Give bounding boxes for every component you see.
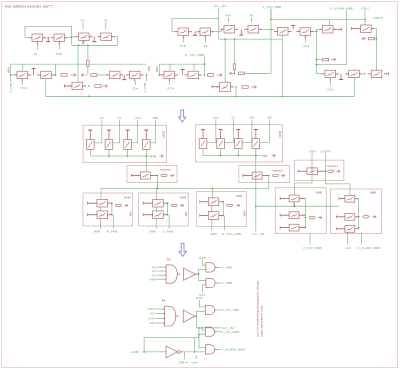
svg-text:AB: AB — [203, 44, 207, 48]
transistor AGB (B2) — [54, 34, 65, 42]
svg-text:MB: MB — [130, 212, 133, 216]
junction x317 y64 — [316, 64, 318, 66]
wire CRB7 label down — [311, 153, 313, 183]
resistor B7 out — [95, 85, 101, 88]
wire UC# A up — [203, 285, 206, 294]
svg-text:NOR: NOR — [161, 131, 165, 138]
svg-text:O_TIO_NBB: O_TIO_NBB — [221, 308, 239, 312]
svg-text:logic equivalent only,: logic equivalent only, — [259, 305, 263, 337]
svg-text:A2: A2 — [150, 312, 154, 316]
group box L2 — [139, 193, 189, 226]
pin end NBB3 t2 in — [279, 214, 281, 217]
group box L1 — [83, 193, 133, 226]
junction inv2 out — [268, 175, 270, 177]
wire AB to t4 NOR2 — [260, 119, 270, 142]
junction Bmid out — [235, 86, 237, 88]
wire t2 bottom NOR2 — [220, 149, 222, 156]
nor-gate G2a — [205, 305, 214, 314]
svg-text:U_PMB: U_PMB — [163, 230, 174, 234]
transistor B325 — [325, 70, 336, 78]
svg-text:R1: R1 — [167, 258, 171, 262]
wire L2 out join — [167, 203, 169, 215]
ground A1a-A2a — [240, 29, 242, 35]
junction CRB7# net — [376, 38, 378, 40]
wire M lab1 — [211, 219, 213, 230]
wire B9 label stub — [135, 82, 137, 85]
oval inv1 — [161, 174, 167, 177]
wire NOR1 to inv1 — [145, 156, 147, 172]
junction L1 out a — [111, 202, 113, 204]
junction NBB3 out a — [305, 217, 307, 219]
svg-text:UC#: UC# — [132, 87, 138, 91]
wire top-left rail — [25, 27, 72, 46]
wire B9 out — [145, 75, 147, 82]
pin end NBB4 t3 in — [335, 227, 337, 230]
svg-text:U_PBB: U_PBB — [222, 281, 232, 285]
junction M out b — [222, 215, 224, 217]
junction NOR2 rail b — [237, 155, 239, 157]
oval M — [227, 204, 233, 207]
transistor L2 t1 — [153, 199, 164, 207]
wire CRB7# label down — [325, 153, 350, 195]
svg-text:Inverter: Inverter — [272, 168, 283, 172]
wire L1 lab1 — [100, 219, 102, 229]
junction NBB4 out b — [358, 226, 360, 228]
wire M out join — [222, 202, 224, 216]
pin end Bmid input — [211, 85, 213, 88]
wire AB B4 in — [154, 322, 164, 324]
arrow R_PMB out — [71, 74, 75, 76]
junction A1a net — [234, 38, 236, 40]
ground B325-B348 — [340, 74, 342, 80]
wire B4 feedback loop — [72, 37, 118, 46]
svg-text:CRB7: CRB7 — [131, 350, 139, 354]
transistor Bmid — [220, 82, 231, 91]
wire bufB to G2a — [196, 311, 205, 316]
svg-text:POH: POH — [21, 86, 28, 90]
arrow marker 1 — [179, 110, 186, 122]
pin end inv1 in — [130, 174, 132, 177]
junction NBB3 out b — [305, 227, 307, 229]
wire CRB7 out — [372, 29, 376, 71]
wire B6 bottom long — [46, 79, 355, 96]
pin end L2 t2 in — [142, 213, 144, 216]
junction NBB4 out a — [358, 216, 360, 218]
pin end L1 t2 in — [87, 213, 89, 216]
resistor CRB7 net — [369, 37, 375, 40]
wire NOR2 rail — [203, 155, 261, 157]
oval NBB4 — [363, 216, 369, 219]
transistor L1 t2 — [97, 211, 108, 219]
wire NBB3 label stub — [309, 234, 311, 245]
wire bufA to G1a — [199, 269, 206, 274]
junction x317 top — [316, 31, 318, 33]
wire inv2 out down — [268, 176, 270, 189]
wire B10 gate drop — [169, 64, 171, 70]
wire NBB4 label stub b — [360, 232, 362, 244]
wire B2 gate label stub — [58, 45, 60, 50]
transistor B6 — [41, 71, 52, 79]
pin end inv3 in — [297, 170, 299, 173]
wire R_TOO label down — [204, 57, 206, 76]
ground t2 NOR1 — [108, 130, 110, 139]
wire res to arrow row mid — [234, 70, 236, 73]
wire resistor to arrow row — [87, 66, 89, 75]
wire y337 to G2b — [195, 334, 206, 337]
junction B1-B2 — [47, 37, 49, 39]
wire NOR1 rail — [90, 155, 150, 157]
wire L1 out join — [111, 203, 113, 215]
ground t4 NOR2 — [255, 130, 257, 139]
wire inv3 passthru — [295, 183, 312, 195]
ground between B3 B4 — [93, 37, 95, 42]
wire t1 bottom NOR1 — [89, 149, 91, 156]
svg-text:AB#: AB# — [148, 307, 154, 311]
wire rail right — [271, 19, 365, 21]
wire A3# to t3 NOR2 — [242, 119, 252, 142]
pin end NBB3 t1 in — [279, 197, 281, 200]
junction B3 bottom — [78, 45, 80, 47]
junction GO vert rail — [255, 155, 257, 157]
wire NBB3 t1 out down — [304, 199, 306, 228]
oval inv3 — [328, 170, 334, 173]
svg-text:Inverter: Inverter — [160, 168, 171, 172]
transistor NBB3 t1 — [289, 195, 299, 202]
transistor UC# (B9) — [130, 71, 141, 79]
svg-text:NBB: NBB — [316, 190, 322, 194]
wire B325 label stub — [329, 78, 331, 86]
junction B6 out — [55, 74, 57, 76]
wire B277 bottom long — [281, 35, 283, 97]
oval L1 — [115, 204, 121, 207]
arrow NOR1 out — [159, 155, 162, 157]
junction NOR1 rail c — [145, 155, 147, 157]
wire to B8 — [97, 74, 106, 76]
wire rail row2 right — [159, 64, 204, 75]
svg-text:MB#: MB# — [94, 230, 101, 234]
junction left input — [10, 74, 12, 76]
wire B3 bottom to loop — [82, 41, 84, 46]
svg-text:AB#: AB# — [149, 277, 155, 281]
wire B11 gate drop — [193, 64, 195, 70]
wire inv4 out to G2c — [182, 351, 205, 353]
pin end inv2 in — [242, 174, 244, 177]
svg-text:U_ALARM_MBB: U_ALARM_MBB — [358, 246, 381, 250]
svg-text:ABB: ABB — [152, 116, 158, 120]
transistor B8 — [110, 71, 121, 79]
arrow NBB3 out — [318, 217, 321, 219]
wire A2 R1 in — [156, 270, 164, 272]
svg-text:R_TOO_MBB: R_TOO_MBB — [185, 53, 204, 57]
junction buffer A out — [198, 273, 200, 275]
svg-text:CRB7#: CRB7# — [373, 16, 383, 20]
junction rail/B2-B3 wire — [71, 36, 73, 38]
junction CRB7 in — [143, 351, 145, 353]
pin end B7 input — [63, 85, 65, 88]
pin end B322 out — [341, 28, 343, 31]
wire G2c out — [217, 348, 221, 350]
wire B5 input — [11, 74, 14, 76]
transistor NBB4 t3 — [345, 225, 355, 232]
wire A2a label down — [251, 17, 253, 22]
svg-text:GO__BA: GO__BA — [252, 232, 264, 236]
wire L2 gate — [156, 188, 158, 199]
transistor UC# (B300) — [300, 28, 311, 36]
junction NOR1 rail b — [127, 155, 129, 157]
svg-text:U_ALARM_MBB: U_ALARM_MBB — [330, 7, 353, 11]
svg-text:CRB7#: CRB7# — [320, 149, 330, 153]
svg-text:Kq2 address decoder, part 7: Kq2 address decoder, part 7 — [5, 4, 53, 8]
wire MOR A down — [203, 260, 206, 266]
nor-gate G2b — [205, 327, 214, 336]
wire AB# R1 in — [156, 278, 164, 280]
arrow B7 out — [102, 85, 106, 87]
svg-text:MB#: MB# — [6, 67, 10, 73]
svg-text:Inverter: Inverter — [327, 164, 338, 168]
resistor vertical mid — [233, 64, 236, 70]
arrow NBB4 out — [372, 216, 375, 218]
ground t3 NOR1 — [127, 130, 129, 139]
wire M lab2 — [224, 215, 226, 230]
arrow inv1 out — [170, 174, 173, 176]
wire A1 to t2 NOR1 — [113, 120, 120, 143]
transistor B322 — [323, 26, 334, 34]
svg-text:A3: A3 — [100, 116, 104, 120]
junction inv1 out — [157, 175, 159, 177]
wire B5 gate drop — [22, 64, 24, 70]
wire B10 label stub — [168, 82, 170, 85]
pin end CRB7 in — [351, 27, 353, 30]
arrow inv3 out — [336, 170, 339, 172]
wire G2c upper — [199, 328, 205, 348]
svg-text:P1B: P1B — [180, 44, 186, 48]
wire t1 bottom NOR2 — [202, 149, 204, 156]
group box Inverter2 — [239, 165, 290, 182]
wire B1 input — [25, 36, 29, 38]
svg-text:MOR: MOR — [196, 296, 203, 300]
wire GO__BA down — [218, 8, 220, 39]
ground t4 NOR1 — [145, 130, 147, 139]
junction long wire x282 — [282, 96, 284, 98]
wire G1a out — [217, 266, 221, 268]
wire CRB7# stub — [183, 352, 185, 359]
group box NBB3 — [275, 188, 326, 234]
wire t4 bottom NOR1 — [145, 149, 147, 156]
wire bufA to G1b — [199, 274, 206, 280]
wire Bmid out down — [235, 87, 237, 96]
svg-text:UC#: UC# — [327, 88, 333, 92]
junction NOR1 rail a — [108, 155, 110, 157]
arrow inv2 out — [281, 175, 284, 177]
group box M — [196, 192, 246, 227]
junction B7 out — [88, 85, 90, 87]
transistor B348 — [349, 70, 360, 78]
junction GO G2b — [201, 327, 203, 329]
wire AB label stub — [205, 39, 207, 43]
svg-text:NOR: NOR — [124, 195, 131, 199]
wire t3 bottom NOR1 — [127, 149, 129, 156]
junction x271 rail — [270, 19, 272, 21]
nor-gate G1a — [206, 263, 215, 272]
ground after B8 — [123, 75, 125, 80]
and-gate R1 — [166, 265, 177, 283]
wire CRB7 to inv4 — [143, 351, 166, 353]
wire y206 bus — [256, 205, 339, 207]
svg-text:A2: A2 — [231, 116, 235, 120]
transistor NBB3 t3 — [289, 224, 299, 231]
buffer A — [184, 268, 196, 280]
transistor A2 (B4) — [101, 33, 112, 41]
transistor inv2 — [252, 172, 262, 179]
arrow left mid — [231, 72, 235, 74]
wire U_ALARM down — [317, 10, 347, 64]
transistor M t1 — [208, 198, 219, 206]
svg-text:NBB: NBB — [370, 190, 376, 194]
svg-text:#TB: #TB — [262, 154, 267, 158]
ground t1 NOR2 — [202, 130, 204, 139]
junction B9 out — [146, 74, 148, 76]
transistor NBB3 t2 — [289, 212, 299, 219]
arrow L1 out — [124, 204, 127, 206]
transistor t1 NOR1 — [86, 140, 94, 150]
svg-text:CRB7: CRB7 — [361, 7, 369, 11]
wire UC# stub — [195, 355, 197, 359]
wire G2b out — [217, 331, 221, 333]
wire A2a out — [262, 28, 274, 30]
transistor CRB7 — [361, 25, 372, 33]
junction long wire x236 — [235, 96, 237, 98]
oval NBB3 — [309, 216, 315, 219]
transistor B371 — [371, 70, 382, 78]
arrow marker 2 — [179, 243, 186, 256]
wire NBB4 label stub a — [347, 232, 349, 244]
transistor P1B — [178, 28, 189, 36]
group box Inverter1 — [127, 165, 177, 182]
junction L1 out b — [111, 214, 113, 216]
wire MOR B down — [199, 300, 205, 307]
transistor inv3 — [307, 168, 317, 175]
oval L2 — [171, 204, 177, 207]
group box NBB4 — [330, 189, 381, 234]
arrow top right — [331, 59, 335, 61]
svg-text:A2: A2 — [104, 19, 108, 23]
wire A2 to t2 NOR2 — [225, 119, 234, 142]
wire L1 gate link — [100, 207, 102, 211]
svg-text:R_PMB: R_PMB — [9, 83, 13, 93]
transistor B11 — [188, 71, 199, 79]
ground B277 right — [292, 25, 294, 29]
svg-text:A1#: A1# — [213, 116, 219, 120]
arrow L2 out — [180, 204, 183, 206]
wire A3 R1 in — [156, 266, 164, 268]
wire loop to resistor — [87, 45, 89, 60]
transistor inv1 — [140, 172, 150, 179]
transistor t4 NOR1 — [142, 140, 150, 150]
wire t2 bottom NOR1 — [108, 149, 110, 156]
buffer B — [183, 310, 195, 322]
svg-text:U_ALARM_MBB: U_ALARM_MBB — [221, 348, 245, 352]
wire AB to A1a — [214, 29, 221, 31]
junction y188 x212 — [212, 188, 214, 190]
junction loop x87.9 — [87, 45, 89, 47]
transistor B277 — [278, 28, 289, 35]
junction GO y206 — [255, 205, 257, 207]
wire B300 label stub — [304, 38, 306, 43]
transistor t3 NOR2 — [234, 139, 242, 149]
wire CRB7 loop up — [143, 338, 145, 352]
wire A2 B4 in — [154, 313, 164, 315]
svg-text:A1: A1 — [118, 116, 122, 120]
pin end NBB4 t1 in — [338, 197, 340, 200]
ground P1B-AB — [194, 32, 196, 36]
svg-text:CRB7#: CRB7# — [178, 361, 188, 365]
arrow left row2 — [82, 74, 86, 76]
wire y337 link — [144, 338, 195, 352]
svg-text:A1a: A1a — [225, 13, 231, 17]
svg-text:uC#: uC# — [345, 246, 351, 250]
svg-text:NOR: NOR — [278, 131, 282, 138]
transistor AB — [200, 28, 211, 36]
wire GO__B4 — [196, 316, 221, 328]
wire B7 top gate — [77, 45, 79, 82]
wire B5 label stub — [21, 82, 23, 85]
group box NOR2 — [196, 125, 283, 162]
wire row right rail — [317, 73, 322, 75]
transistor M t2 — [208, 212, 219, 220]
svg-text:A_TOO_MBB: A_TOO_MBB — [263, 5, 282, 9]
wire B371 gate top — [375, 69, 377, 71]
ground row2 left — [33, 69, 35, 75]
wire y188 bus — [101, 187, 269, 189]
transistor POH (B10) — [164, 71, 175, 79]
arrow left CRB7 — [363, 38, 366, 40]
junction inv4 out — [194, 351, 196, 353]
svg-text:A2: A2 — [250, 13, 254, 17]
pin end NBB3 t3 in — [279, 226, 281, 229]
wire AB# B4 in — [154, 308, 164, 310]
transistor POH (B5) — [17, 71, 28, 79]
wire A1 R1 in — [156, 274, 164, 276]
wire y39 main — [219, 38, 282, 40]
wire rail P1B — [172, 19, 219, 32]
wire A1# B4 in — [154, 317, 164, 319]
svg-text:A3: A3 — [81, 19, 85, 23]
pin end L2 t1 in — [142, 202, 144, 205]
junction L2 out a — [167, 202, 169, 204]
junction long wire x88.8 — [88, 96, 90, 98]
wire inv1 out down — [157, 175, 159, 188]
transistor B7 — [72, 82, 83, 90]
wire NBB4 t1 out down — [358, 199, 360, 228]
group box NOR1 — [83, 125, 167, 162]
svg-text:MBA: MBA — [155, 66, 159, 72]
wire t4 bottom NOR2 — [255, 149, 257, 156]
svg-text:U_TOO_MBB: U_TOO_MBB — [303, 246, 322, 250]
svg-text:AB: AB — [149, 321, 154, 325]
wire L1 gate — [100, 188, 102, 199]
transistor A1a — [224, 26, 235, 34]
arrow B11 out — [217, 74, 221, 76]
transistor L1 t1 — [97, 199, 108, 207]
junction Bmid gate top — [224, 38, 226, 40]
wire t3 bottom NOR2 — [237, 149, 239, 156]
wire arrow row to x271 — [245, 9, 271, 74]
svg-text:R_PMB: R_PMB — [107, 230, 118, 234]
svg-text:GO__BA: GO__BA — [214, 4, 226, 8]
svg-text:MB#: MB# — [211, 232, 218, 236]
svg-text:MB#: MB# — [150, 230, 157, 234]
wire L2 gate link — [155, 207, 157, 211]
